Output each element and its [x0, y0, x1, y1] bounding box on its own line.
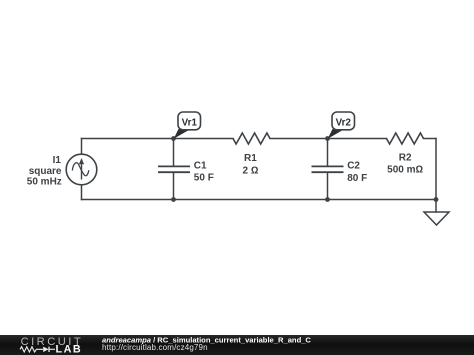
svg-text:LAB: LAB — [56, 344, 83, 355]
resistor R1 — [233, 133, 270, 144]
resistor R2 — [387, 133, 424, 144]
node label Vr1 — [174, 112, 201, 139]
svg-text:C2: C2 — [347, 160, 360, 171]
wire node Vr2 to R2 — [328, 138, 387, 140]
svg-text:Vr2: Vr2 — [336, 117, 352, 128]
wire top-left (left rail corner to node Vr1) — [82, 138, 174, 140]
logo resistor zigzag — [20, 347, 43, 352]
junction node Vr1 — [171, 136, 176, 141]
wire R1 to node Vr2 — [270, 138, 328, 140]
wire left rail lower — [81, 185, 83, 200]
label I1 value — [27, 155, 62, 188]
wire R2 to right corner — [424, 138, 437, 140]
capacitor C2 — [312, 166, 344, 172]
wire C1 lower lead — [173, 172, 175, 199]
junction C2 bottom — [325, 197, 330, 202]
label C2 value — [347, 160, 367, 184]
label R2 value — [387, 153, 423, 176]
wire left rail upper — [81, 139, 83, 155]
label R1 value — [242, 153, 258, 176]
junction C1 bottom — [171, 197, 176, 202]
wire bottom rail — [82, 199, 437, 201]
logo diode — [43, 347, 49, 352]
wire node Vr1 to R1 — [174, 138, 234, 140]
label C1 value — [194, 160, 214, 183]
svg-text:Vr1: Vr1 — [182, 117, 198, 128]
junction ground — [434, 197, 439, 202]
svg-text:square: square — [29, 166, 62, 177]
node label Vr2 — [328, 112, 355, 139]
current source I1 — [66, 154, 97, 185]
wire C2 upper lead — [327, 139, 329, 167]
ground — [424, 212, 449, 225]
svg-text:R1: R1 — [244, 153, 257, 164]
svg-text:50 mHz: 50 mHz — [27, 177, 62, 188]
wire C2 lower lead — [327, 172, 329, 199]
wire ground lead — [435, 200, 437, 213]
svg-text:I1: I1 — [53, 155, 62, 166]
wire C1 upper lead — [173, 139, 175, 167]
svg-text:2 Ω: 2 Ω — [242, 165, 258, 176]
svg-text:80 F: 80 F — [347, 173, 367, 184]
capacitor C1 — [158, 166, 190, 172]
svg-text:R2: R2 — [399, 153, 412, 164]
svg-text:500 mΩ: 500 mΩ — [387, 165, 423, 176]
wire right rail — [435, 139, 437, 200]
svg-text:50 F: 50 F — [194, 173, 214, 184]
svg-text:http://circuitlab.com/cz4g79n: http://circuitlab.com/cz4g79n — [102, 343, 208, 352]
svg-text:C1: C1 — [194, 160, 207, 171]
junction node Vr2 — [325, 136, 330, 141]
